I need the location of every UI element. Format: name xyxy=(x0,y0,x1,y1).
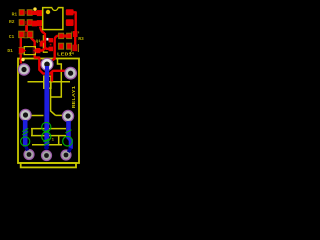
svg-text:R1: R1 xyxy=(12,11,18,17)
svg-text:C1: C1 xyxy=(9,34,15,40)
svg-text:D1: D1 xyxy=(7,48,13,54)
svg-text:D4: D4 xyxy=(69,52,74,56)
svg-text:Q1: Q1 xyxy=(36,40,41,44)
svg-text:RELAY1: RELAY1 xyxy=(71,86,77,109)
svg-text:R2: R2 xyxy=(9,19,15,25)
svg-text:R3: R3 xyxy=(78,36,84,42)
